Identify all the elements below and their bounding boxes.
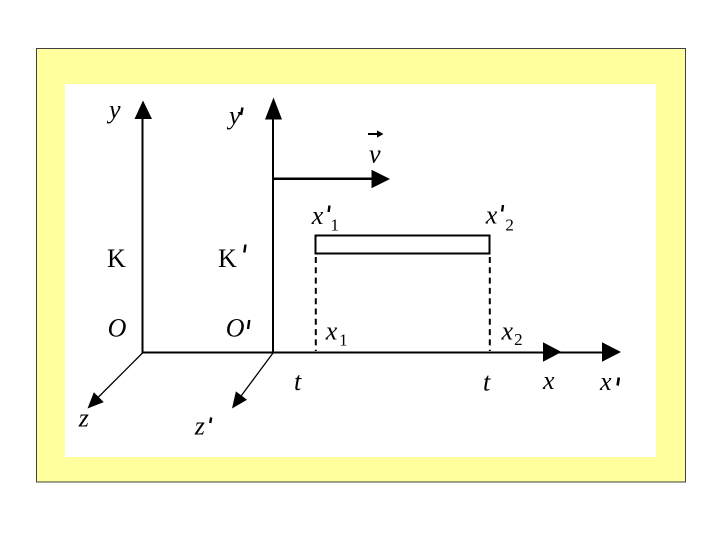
x-axis arrowhead: [543, 342, 562, 362]
svg-text:t: t: [294, 367, 302, 396]
svg-text:O: O: [226, 313, 245, 342]
svg-text:x: x: [501, 316, 514, 345]
svg-text:z: z: [78, 403, 89, 432]
z-axis of frame K (wire): [92, 353, 143, 404]
svg-text:K: K: [218, 244, 237, 273]
svg-text:x: x: [599, 367, 612, 396]
dashed projection line x1: [315, 257, 317, 351]
y'-axis arrowhead K': [265, 98, 282, 120]
svg-text:y: y: [226, 101, 241, 130]
svg-text:x: x: [542, 366, 555, 395]
x'-axis arrowhead: [602, 342, 621, 362]
z'-axis arrowhead K': [232, 391, 247, 408]
svg-text:1: 1: [339, 331, 348, 350]
svg-text:O: O: [108, 313, 127, 342]
svg-text:z: z: [194, 411, 205, 440]
svg-text:2: 2: [514, 330, 523, 349]
svg-text:x: x: [311, 201, 324, 230]
svg-text:v: v: [369, 140, 381, 169]
y'-axis of frame K' (wire): [272, 114, 274, 354]
z'-axis of frame K' (wire): [236, 353, 274, 404]
svg-text:K: K: [107, 244, 126, 273]
z-axis arrowhead K: [88, 392, 104, 408]
vector bar over v: [368, 133, 379, 135]
svg-text:x: x: [325, 317, 338, 346]
svg-text:x: x: [485, 201, 498, 230]
svg-text:1: 1: [331, 216, 340, 235]
velocity arrowhead: [372, 170, 391, 188]
velocity arrow v (wire): [273, 178, 374, 181]
dashed projection line x2: [489, 257, 491, 351]
slide yellow background: [37, 49, 686, 483]
svg-text:2: 2: [505, 215, 514, 234]
x-axis (wire): [142, 352, 618, 354]
y-axis of frame K (wire): [142, 114, 144, 354]
y-axis arrowhead K: [135, 101, 153, 120]
rod (measured body): [316, 236, 490, 254]
svg-text:t: t: [483, 368, 491, 397]
svg-text:y: y: [106, 95, 121, 124]
white diagram panel: [65, 84, 656, 457]
